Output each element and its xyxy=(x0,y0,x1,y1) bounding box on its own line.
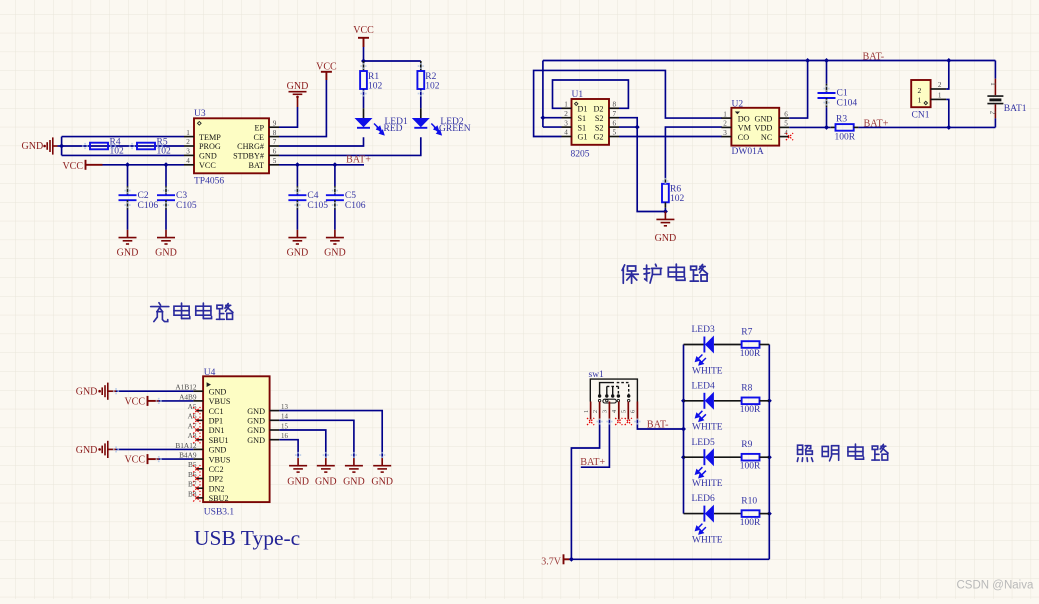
svg-text:WHITE: WHITE xyxy=(692,366,723,376)
svg-text:USB Type-c: USB Type-c xyxy=(194,526,300,550)
svg-text:7: 7 xyxy=(273,138,277,146)
wire to U4 VBUS A xyxy=(159,400,194,402)
svg-text:VCC: VCC xyxy=(124,455,145,466)
node right rail xyxy=(767,511,772,516)
svg-text:D2: D2 xyxy=(593,105,603,114)
op-amp U3 TP4056 body xyxy=(194,118,269,173)
ground symbol below R6 xyxy=(664,212,666,220)
wire bottom 3.7V rail xyxy=(571,558,769,560)
svg-text:CE: CE xyxy=(254,133,264,142)
svg-text:3: 3 xyxy=(564,119,568,127)
wire STDBY# to LED2 xyxy=(279,137,421,155)
wire CE to VCC xyxy=(279,80,326,137)
svg-text:4: 4 xyxy=(564,129,568,137)
svg-text:C104: C104 xyxy=(837,98,858,108)
svg-text:BAT-: BAT- xyxy=(863,51,885,62)
svg-text:B1A12: B1A12 xyxy=(175,441,196,450)
svg-text:1: 1 xyxy=(989,82,997,86)
svg-text:CN1: CN1 xyxy=(912,110,930,120)
no-ERC crosses on sw1 pins 1,4,5 xyxy=(587,418,594,425)
svg-text:WHITE: WHITE xyxy=(692,479,723,489)
U3 right pins xyxy=(269,126,279,128)
svg-text:CO: CO xyxy=(738,133,749,142)
svg-text:S2: S2 xyxy=(595,123,604,132)
wire CN1 pin1 to BAT+ xyxy=(946,99,949,127)
svg-text:VBUS: VBUS xyxy=(209,397,231,406)
svg-text:GND: GND xyxy=(315,477,337,488)
svg-text:GND: GND xyxy=(655,233,677,244)
sw1 pins xyxy=(590,402,592,420)
svg-text:DN2: DN2 xyxy=(209,484,225,493)
wire sw1 pin2 to 3.7V rail xyxy=(571,420,599,560)
svg-text:LED4: LED4 xyxy=(692,381,715,391)
svg-text:3: 3 xyxy=(602,410,609,413)
no-ERC cross on U2 NC pin xyxy=(786,133,793,140)
wire VCC down to LED rail xyxy=(363,47,365,61)
wire sw1 pin3 BAT+ stub xyxy=(581,420,610,468)
svg-text:GND: GND xyxy=(155,247,177,258)
ground symbol xyxy=(334,230,336,238)
wire U4 GND pin to ground xyxy=(279,420,354,458)
svg-text:9: 9 xyxy=(273,119,277,127)
resistor R1 xyxy=(363,61,365,71)
svg-text:3.7V: 3.7V xyxy=(541,556,562,567)
svg-text:2: 2 xyxy=(564,110,568,118)
svg-text:1: 1 xyxy=(186,129,190,137)
wire CN1 pin2 to BAT- xyxy=(946,61,949,90)
U3 left pins xyxy=(184,136,194,138)
svg-text:DP1: DP1 xyxy=(209,417,224,426)
resistor R7 xyxy=(714,344,742,346)
ground symbol xyxy=(297,458,299,466)
svg-text:R9: R9 xyxy=(741,440,752,450)
svg-text:7: 7 xyxy=(613,110,617,118)
svg-text:GND: GND xyxy=(247,436,265,445)
svg-text:1: 1 xyxy=(583,410,590,413)
wire VDD to R3 xyxy=(789,126,831,128)
wire to U4 VBUS B xyxy=(159,458,194,460)
svg-text:GND: GND xyxy=(247,407,265,416)
svg-text:100R: 100R xyxy=(740,462,761,472)
svg-text:RED: RED xyxy=(384,124,403,134)
U4 right pin 13 GND xyxy=(270,410,280,412)
wire U2 GND to BAT- xyxy=(789,61,807,119)
capacitor C1 xyxy=(826,61,828,84)
svg-text:VDD: VDD xyxy=(755,124,773,133)
svg-text:R10: R10 xyxy=(741,496,757,506)
ground symbol xyxy=(381,458,383,466)
svg-text:8: 8 xyxy=(613,101,617,109)
wire VM to R6 xyxy=(665,127,722,178)
pin hotspot grid markers xyxy=(124,187,130,193)
svg-text:1: 1 xyxy=(918,96,922,105)
node S2 junction xyxy=(635,125,640,130)
node 3.7V junction xyxy=(569,557,574,562)
node BAT- feed xyxy=(681,427,686,432)
svg-text:5: 5 xyxy=(273,157,277,165)
svg-text:GND: GND xyxy=(287,477,309,488)
svg-text:GND: GND xyxy=(247,417,265,426)
svg-text:S1: S1 xyxy=(578,123,587,132)
svg-text:GND: GND xyxy=(287,247,309,258)
wire right rail xyxy=(768,345,770,560)
svg-text:sw1: sw1 xyxy=(589,370,605,380)
wire to pin1 TEMP xyxy=(62,136,184,138)
svg-text:VCC: VCC xyxy=(199,161,216,170)
svg-text:GND: GND xyxy=(76,387,98,398)
svg-text:5: 5 xyxy=(784,120,788,128)
svg-text:2: 2 xyxy=(988,111,996,115)
node C1 bottom xyxy=(824,125,829,130)
svg-text:GND: GND xyxy=(209,446,227,455)
op-amp U2 DW01A body xyxy=(731,108,779,146)
wire BAT- down to U1 S1 pins xyxy=(542,61,544,128)
svg-text:S2: S2 xyxy=(595,114,604,123)
title 充电电路 (charging circuit) xyxy=(151,303,169,322)
svg-text:GND: GND xyxy=(117,247,139,258)
node C3 tap xyxy=(164,162,169,167)
svg-text:VCC: VCC xyxy=(353,25,374,36)
capacitor C4 xyxy=(296,165,298,186)
svg-text:C4: C4 xyxy=(307,191,318,201)
U4 right pin 14 GND xyxy=(270,419,280,421)
svg-text:C105: C105 xyxy=(176,201,197,211)
wire BAT- top rail xyxy=(543,60,996,62)
svg-text:BAT1: BAT1 xyxy=(1004,104,1027,114)
LED LED3 xyxy=(684,344,705,346)
svg-text:U4: U4 xyxy=(204,368,216,378)
svg-text:LED3: LED3 xyxy=(692,325,715,335)
svg-text:2: 2 xyxy=(592,410,599,413)
svg-text:100R: 100R xyxy=(740,518,761,528)
svg-text:VCC: VCC xyxy=(62,161,83,172)
node C2 tap xyxy=(125,162,130,167)
wire U4 GND pin to ground xyxy=(279,440,298,458)
svg-text:3: 3 xyxy=(186,148,190,156)
svg-text:6: 6 xyxy=(273,148,277,156)
svg-text:3: 3 xyxy=(723,129,727,137)
svg-text:6: 6 xyxy=(613,119,617,127)
svg-text:2: 2 xyxy=(186,138,190,146)
svg-text:GND: GND xyxy=(755,114,773,123)
node R6/GND junction xyxy=(663,209,668,214)
svg-text:6: 6 xyxy=(784,110,788,118)
svg-text:CC2: CC2 xyxy=(209,465,224,474)
svg-text:BAT+: BAT+ xyxy=(580,457,605,468)
wire sw1 pin6 to BAT- / LED rail xyxy=(637,420,683,430)
svg-text:8: 8 xyxy=(273,129,277,137)
wire to U4 GND A xyxy=(116,390,193,392)
svg-text:NC: NC xyxy=(761,133,773,142)
svg-text:USB3.1: USB3.1 xyxy=(204,507,235,517)
svg-text:C106: C106 xyxy=(138,201,159,211)
ground symbol xyxy=(127,230,129,238)
node R1 top xyxy=(361,59,366,64)
svg-text:A4B9: A4B9 xyxy=(179,392,197,401)
svg-text:R3: R3 xyxy=(836,114,847,124)
svg-text:8205: 8205 xyxy=(571,149,590,159)
svg-text:R7: R7 xyxy=(741,327,752,337)
resistor R10 xyxy=(714,513,742,515)
LED LED4 xyxy=(684,400,705,402)
capacitor C2 xyxy=(127,165,129,186)
node S1 junction xyxy=(540,115,545,120)
svg-text:5: 5 xyxy=(613,129,617,137)
LED1 xyxy=(355,118,373,127)
resistor R8 xyxy=(714,400,742,402)
wire to pin3 GND xyxy=(62,154,184,156)
svg-text:100R: 100R xyxy=(740,349,761,359)
ground symbol xyxy=(296,230,298,238)
svg-text:VCC: VCC xyxy=(124,396,145,407)
svg-text:WHITE: WHITE xyxy=(692,535,723,545)
resistor R9 xyxy=(714,456,742,458)
svg-text:C2: C2 xyxy=(138,191,149,201)
svg-text:EP: EP xyxy=(254,123,264,132)
svg-text:A1B12: A1B12 xyxy=(175,383,196,392)
svg-text:BAT+: BAT+ xyxy=(346,155,371,166)
svg-text:G2: G2 xyxy=(593,133,603,142)
ground symbol xyxy=(325,458,327,466)
svg-text:STDBY#: STDBY# xyxy=(233,152,264,161)
svg-text:102: 102 xyxy=(425,82,440,92)
resistor R5 xyxy=(137,143,155,150)
svg-text:WHITE: WHITE xyxy=(692,423,723,433)
svg-text:CSDN @Naiva: CSDN @Naiva xyxy=(957,579,1034,591)
wire rail to R2 xyxy=(364,60,421,62)
svg-text:R8: R8 xyxy=(741,384,752,394)
svg-text:GND: GND xyxy=(371,477,393,488)
wire U4 GND pin to ground xyxy=(279,411,382,458)
svg-text:DN1: DN1 xyxy=(209,426,225,435)
svg-text:BAT+: BAT+ xyxy=(864,118,889,129)
svg-text:GND: GND xyxy=(287,81,309,92)
svg-text:SBU1: SBU1 xyxy=(209,436,229,445)
title 照明电路 (lighting circuit) xyxy=(797,445,812,461)
svg-text:GND: GND xyxy=(209,387,227,396)
node C4 tap xyxy=(295,162,300,167)
resistor R6 xyxy=(664,178,666,184)
svg-text:C105: C105 xyxy=(307,201,328,211)
svg-text:SBU2: SBU2 xyxy=(209,494,229,503)
wire D1-D2 loop xyxy=(553,80,629,108)
svg-text:DW01A: DW01A xyxy=(732,147,764,157)
svg-text:C3: C3 xyxy=(176,191,187,201)
svg-text:GREEN: GREEN xyxy=(439,124,471,134)
svg-text:TP4056: TP4056 xyxy=(194,177,224,187)
node C1 top / BAT- xyxy=(824,58,829,63)
svg-text:GND: GND xyxy=(324,247,346,258)
wire U4 GND pin to ground xyxy=(279,430,326,458)
svg-text:VCC: VCC xyxy=(316,61,337,72)
wire S2 pins to R6 bottom / GND xyxy=(619,118,665,212)
svg-text:PROG: PROG xyxy=(199,142,221,151)
node left rail xyxy=(681,455,686,460)
U4 right pin 16 GND xyxy=(270,439,280,441)
svg-text:VBUS: VBUS xyxy=(209,455,231,464)
svg-text:B4A9: B4A9 xyxy=(179,451,197,460)
svg-text:GND: GND xyxy=(343,477,365,488)
svg-text:LED6: LED6 xyxy=(692,494,715,504)
connector U4 USB3.1 body xyxy=(203,376,270,502)
svg-text:VM: VM xyxy=(738,124,752,133)
LED LED5 xyxy=(684,456,705,458)
wire GND net to U3 pins 1,2,3 xyxy=(58,145,62,147)
wire to U4 GND B xyxy=(116,448,193,450)
svg-text:C5: C5 xyxy=(345,191,356,201)
node CN1 pin2 tap xyxy=(946,58,951,63)
svg-text:U3: U3 xyxy=(194,109,206,119)
svg-text:U2: U2 xyxy=(732,100,744,110)
LED LED6 xyxy=(684,513,705,515)
node right rail xyxy=(767,398,772,403)
svg-text:C106: C106 xyxy=(345,201,366,211)
battery BAT1 xyxy=(994,61,996,79)
svg-text:G1: G1 xyxy=(578,133,588,142)
svg-text:R1: R1 xyxy=(368,72,379,82)
svg-text:DP2: DP2 xyxy=(209,475,224,484)
svg-text:D1: D1 xyxy=(578,105,588,114)
svg-text:1: 1 xyxy=(564,101,568,109)
svg-text:R6: R6 xyxy=(670,184,681,194)
node right rail xyxy=(767,455,772,460)
svg-text:CHRG#: CHRG# xyxy=(237,142,264,151)
node GND junction xyxy=(59,144,64,149)
wire CHRG# to LED1 xyxy=(279,137,364,146)
svg-text:100R: 100R xyxy=(740,405,761,415)
svg-text:C1: C1 xyxy=(837,89,848,99)
capacitor C3 xyxy=(165,165,167,186)
svg-text:5: 5 xyxy=(621,410,628,413)
svg-text:BAT: BAT xyxy=(249,161,264,170)
svg-text:102: 102 xyxy=(670,194,685,204)
wire EP to GND xyxy=(279,107,298,127)
U4 right pin 15 GND xyxy=(270,429,280,431)
ground symbol xyxy=(353,458,355,466)
svg-text:4: 4 xyxy=(186,157,190,165)
svg-text:1: 1 xyxy=(938,91,942,99)
wire left LED rail xyxy=(683,345,685,514)
LED2 xyxy=(412,118,430,127)
resistor R3 xyxy=(831,126,836,128)
svg-text:DO: DO xyxy=(738,114,750,123)
svg-text:LED5: LED5 xyxy=(692,438,715,448)
svg-text:CC1: CC1 xyxy=(209,407,224,416)
transistor U1 8205 body xyxy=(572,99,610,145)
resistor R4 xyxy=(90,143,108,150)
svg-text:1: 1 xyxy=(723,110,727,118)
node CN1 pin1 tap xyxy=(946,125,951,130)
wire BAT row xyxy=(279,164,364,166)
wire VCC to pin4 xyxy=(103,164,185,166)
title 保护电路 (protection circuit) xyxy=(622,265,638,283)
wire BAT+ rail xyxy=(858,126,995,128)
node BAT- / U2 GND xyxy=(805,58,810,63)
svg-text:2: 2 xyxy=(723,120,727,128)
svg-text:GND: GND xyxy=(76,445,98,456)
svg-text:GND: GND xyxy=(22,141,44,152)
svg-text:2: 2 xyxy=(918,86,922,95)
svg-text:GND: GND xyxy=(247,426,265,435)
svg-text:BAT-: BAT- xyxy=(647,420,669,431)
wire G2 to DW01A CO xyxy=(619,136,722,138)
svg-text:U1: U1 xyxy=(572,90,584,100)
svg-text:102: 102 xyxy=(157,147,172,157)
svg-text:2: 2 xyxy=(938,81,942,89)
wire G1 loop to DW01A DO xyxy=(534,70,722,136)
wire PROG row through R4 R5 xyxy=(62,145,184,147)
svg-text:GND: GND xyxy=(199,152,217,161)
capacitor C5 xyxy=(334,165,336,186)
svg-text:R2: R2 xyxy=(425,72,436,82)
connector CN1 xyxy=(911,80,930,107)
svg-text:100R: 100R xyxy=(835,132,856,142)
resistor R2 xyxy=(420,61,422,71)
svg-text:TEMP: TEMP xyxy=(199,133,221,142)
svg-text:102: 102 xyxy=(368,82,383,92)
svg-text:S1: S1 xyxy=(578,114,587,123)
ground symbol xyxy=(165,230,167,238)
svg-text:102: 102 xyxy=(110,147,125,157)
node C5 tap xyxy=(332,162,337,167)
node left rail xyxy=(681,398,686,403)
